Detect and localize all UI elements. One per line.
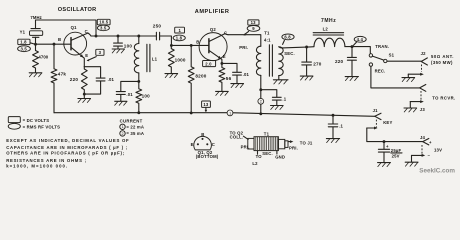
resistor 56 (219, 63, 232, 91)
svg-text:PRI.: PRI. (239, 45, 248, 50)
DC volts box 1.8 at crystal (18, 39, 34, 44)
svg-text:k=1000, M=1000 000.: k=1000, M=1000 000. (6, 163, 68, 168)
resistor 8200 (188, 45, 206, 113)
ground (crystal bias) (29, 73, 42, 77)
svg-text:270: 270 (313, 62, 322, 67)
transistor Q1 (58, 25, 91, 67)
wire: collector node (91, 36, 171, 45)
transistor Q2 (196, 27, 228, 63)
svg-text:7MHz: 7MHz (30, 15, 41, 20)
jack J2 (50 ohm ant) (408, 51, 454, 78)
ground (.01 decoupling) (115, 101, 127, 105)
svg-text:.1: .1 (339, 124, 343, 129)
jack J4 (13V power) (412, 135, 443, 162)
svg-text:T1: T1 (264, 31, 270, 36)
capacitor .1 (rail bypass) (328, 115, 343, 138)
junction: 25uF tap (383, 140, 386, 143)
DC volts box 13 at rail (202, 101, 211, 112)
svg-text:TO RCVR.: TO RCVR. (432, 96, 455, 101)
wire: T1 secondary bottom to ground (278, 76, 280, 80)
resistor 100 (decoupling) (136, 81, 150, 112)
svg-text:250: 250 (153, 24, 162, 29)
svg-text:= 35 mA: = 35 mA (126, 131, 144, 136)
capacitor .01 (L1 decoupling) (116, 81, 139, 101)
capacitor .1 (T1 primary decoupling) (261, 90, 287, 106)
svg-text:3.5: 3.5 (21, 46, 28, 51)
svg-text:−: − (428, 153, 431, 158)
ground (J4) (405, 162, 418, 166)
capacitor 25uF 25V (378, 142, 402, 163)
svg-text:Y1: Y1 (20, 29, 26, 34)
ground (J2) (402, 78, 415, 82)
svg-text:SeekIC.com: SeekIC.com (419, 168, 455, 175)
ground (.01 Q2) (231, 84, 244, 88)
svg-text:2: 2 (260, 100, 262, 104)
svg-text:.01: .01 (126, 92, 133, 97)
svg-text:COLL.: COLL. (230, 134, 244, 139)
wire: secondary out to filter (282, 47, 314, 48)
svg-text:TRAN.: TRAN. (375, 44, 389, 49)
svg-text:6.8: 6.8 (284, 35, 291, 40)
svg-text:4700: 4700 (38, 55, 48, 60)
svg-text:AMPLIFIER: AMPLIFIER (195, 9, 230, 15)
svg-text:REC.: REC. (375, 69, 386, 74)
DC volts box 13 at Q2 collector (248, 20, 259, 25)
junction: 100pF tap (117, 35, 120, 38)
DC volts box 3 at Q1 emitter (87, 49, 104, 61)
svg-text:.01: .01 (108, 77, 115, 82)
svg-text:100: 100 (124, 44, 133, 49)
junction: rail / 8200 ohm (190, 111, 193, 114)
svg-text:J2: J2 (421, 51, 427, 56)
svg-text:L2: L2 (252, 161, 258, 166)
capacitor 250 (coupling) (153, 24, 162, 40)
wire: Q2 collector to T1 (228, 35, 261, 47)
junction: filter input node (305, 46, 308, 49)
transformer T1 4:1 (239, 31, 295, 77)
svg-text:PRI.: PRI. (241, 145, 250, 150)
junction: 8200 ohm tap / node B (190, 44, 193, 47)
svg-text:CURRENT: CURRENT (120, 118, 143, 123)
ground (1000) (165, 74, 178, 78)
wire: REC to J3 (371, 66, 420, 88)
junction: crystal / base node A (34, 43, 37, 46)
inductor L1 (134, 36, 157, 81)
svg-text:50Ω ANT.: 50Ω ANT. (431, 54, 454, 59)
svg-text:E: E (223, 54, 226, 59)
svg-text:8200: 8200 (195, 73, 206, 78)
legend: RMS RF volts symbol (8, 123, 60, 129)
svg-text:25V: 25V (392, 153, 400, 158)
capacitor 100 (collector to gnd) (114, 36, 133, 49)
DC volts box 10.5 at Q1 collector (97, 19, 110, 25)
junction: 1000 ohm tap (170, 44, 173, 47)
svg-text:CAPACITANCE ARE IN MICROFARADS: CAPACITANCE ARE IN MICROFARADS ( µF ) ; (6, 145, 128, 150)
inductor L2 (7MHz) (313, 18, 345, 47)
svg-text:EXCEPT AS INDICATED, DECIMAL V: EXCEPT AS INDICATED, DECIMAL VALUES OF (6, 138, 129, 143)
svg-text:Q1: Q1 (71, 25, 77, 30)
capacitor 270 (302, 47, 322, 76)
resistor 4700 (33, 51, 49, 73)
DC volts box 1 at Q2 base (175, 27, 185, 33)
RF volts oval 4.4 (353, 36, 366, 45)
svg-text:220: 220 (335, 59, 344, 64)
svg-text:E: E (85, 53, 88, 58)
svg-text:B: B (196, 39, 199, 44)
svg-text:E: E (191, 142, 194, 147)
svg-text:S1: S1 (389, 52, 395, 57)
svg-text:J3: J3 (420, 107, 426, 112)
legend: units note (6, 138, 129, 168)
junction: filter output node (351, 45, 354, 48)
ground (J3) (404, 108, 417, 112)
ground (.1 rail) (326, 139, 339, 143)
svg-text:(BOTTOM): (BOTTOM) (196, 154, 219, 159)
wire: top feedback rail from crystal to collector node (36, 20, 97, 36)
svg-text:7MHz: 7MHz (321, 18, 336, 24)
junction: L1 bottom node (137, 80, 140, 83)
svg-text:C: C (212, 142, 215, 147)
wire: S1 pole to J2 (387, 60, 421, 62)
svg-text:KEY: KEY (383, 120, 392, 125)
RF volts oval 1.8 at Q2 base (173, 35, 185, 41)
junction: feedback/collector node (95, 35, 98, 38)
svg-text:1: 1 (122, 125, 124, 129)
svg-text:OSCILLATOR: OSCILLATOR (58, 7, 97, 13)
svg-text:C: C (85, 29, 88, 34)
wire: key line to J4 (367, 128, 423, 142)
svg-text:J4: J4 (420, 135, 426, 140)
svg-text:SEC.: SEC. (262, 151, 273, 156)
ground (100 cap) (112, 49, 124, 53)
switch S1 (369, 44, 394, 73)
RF volts oval 3.5 at Q1 collector (97, 25, 109, 31)
svg-text:OTHERS ARE IN PICOFARADS ( pF: OTHERS ARE IN PICOFARADS ( pF OR µµF); (6, 151, 125, 156)
junction: T1 primary return (259, 88, 262, 91)
capacitor 220 (filter) (335, 47, 356, 77)
resistor 47k (51, 44, 66, 113)
svg-text:.1: .1 (282, 97, 286, 102)
svg-text:13: 13 (251, 20, 257, 25)
svg-text:1.8: 1.8 (20, 40, 27, 45)
svg-text:PRI.: PRI. (289, 145, 298, 150)
svg-text:56: 56 (226, 76, 232, 81)
svg-text:1.8: 1.8 (176, 36, 183, 41)
svg-text:+: + (429, 140, 432, 145)
wire: filter out (345, 47, 370, 54)
junction: rail / .1 bypass (332, 114, 335, 117)
svg-text:L2: L2 (323, 26, 329, 31)
ground (.1 T1) (271, 106, 284, 110)
ground (25uF) (378, 163, 391, 167)
legend: DC volts symbol (8, 117, 49, 123)
capacitor .01 (Q2 emitter bypass) (222, 63, 250, 83)
svg-text:4.4: 4.4 (357, 37, 364, 42)
svg-text:= 22 mA: = 22 mA (126, 125, 144, 130)
wire: T1 primary bottom to rail (260, 75, 262, 113)
svg-text:4:1: 4:1 (264, 37, 271, 42)
svg-text:T1: T1 (264, 131, 270, 136)
svg-text:B: B (58, 37, 61, 42)
current point 2 (258, 98, 264, 104)
svg-text:13: 13 (203, 102, 209, 107)
wire: base wire (36, 43, 64, 45)
svg-text:13V: 13V (434, 147, 442, 152)
svg-text:Q2: Q2 (210, 27, 216, 32)
ground (T1 secondary) (273, 80, 288, 84)
svg-text:J1: J1 (373, 108, 379, 113)
svg-text:220: 220 (70, 77, 79, 82)
RF volts oval 6.8 at T1 secondary (282, 34, 294, 44)
junction: Q2 emitter node (220, 62, 223, 65)
RF volts oval 3.5 at crystal (18, 46, 31, 52)
legend: Q1 Q2 pinout (bottom view) (191, 132, 219, 159)
svg-text:L1: L1 (152, 57, 158, 62)
svg-text:2: 2 (122, 132, 124, 136)
ground (270) (300, 76, 313, 80)
capacitor .01 (Q1 emitter bypass) (84, 67, 114, 94)
RF volts oval 9 at Q2 collector (243, 26, 259, 36)
wire: +13V bottom rail (54, 113, 375, 117)
svg-text:1: 1 (229, 111, 231, 115)
jack J3 (to receiver) (410, 85, 455, 113)
svg-text:= RMS RF VOLTS: = RMS RF VOLTS (23, 124, 61, 129)
svg-text:2.0: 2.0 (205, 61, 212, 66)
junction: base bias tap (53, 43, 56, 46)
svg-text:3.5: 3.5 (100, 26, 107, 31)
junction: L1 tap (137, 35, 140, 38)
junction: rail / 100 ohm (137, 111, 140, 114)
junction: Q1 emitter RC bottom (83, 93, 86, 96)
DC volts box 2.0 at Q2 emitter (203, 61, 216, 67)
ground (220) (345, 77, 358, 81)
wire: Q2 base line (171, 44, 209, 46)
svg-text:TO J1: TO J1 (300, 140, 313, 145)
svg-text:SEC.: SEC. (284, 51, 295, 56)
svg-text:B: B (201, 132, 204, 137)
jack J1 (KEY) (367, 108, 393, 130)
svg-text:GND: GND (275, 154, 285, 159)
svg-text:1000: 1000 (175, 57, 186, 62)
svg-text:(350 MW): (350 MW) (431, 60, 453, 65)
junction: rail / T1 primary (259, 112, 262, 115)
legend: T1 winding pictorial (230, 130, 313, 166)
svg-text:10.5: 10.5 (99, 20, 108, 25)
resistor 220 (Q1 emitter) (70, 67, 87, 94)
svg-text:RESISTANCES ARE IN OHMS ;: RESISTANCES ARE IN OHMS ; (6, 158, 87, 163)
svg-text:C: C (224, 30, 227, 35)
crystal Y1 (7MHz) (20, 15, 43, 50)
ground (Q1 emitter) (78, 94, 91, 102)
legend: current table (120, 118, 144, 136)
svg-text:3: 3 (99, 50, 102, 55)
svg-text:47k: 47k (58, 72, 67, 77)
svg-text:25µF: 25µF (391, 148, 402, 153)
current point 1 (227, 110, 233, 116)
svg-text:.01: .01 (243, 72, 250, 77)
svg-text:= DC VOLTS: = DC VOLTS (23, 118, 50, 123)
svg-text:100: 100 (142, 93, 151, 98)
ground (56) (216, 91, 229, 95)
resistor 1000 (168, 45, 186, 73)
svg-text:+: + (386, 144, 389, 149)
